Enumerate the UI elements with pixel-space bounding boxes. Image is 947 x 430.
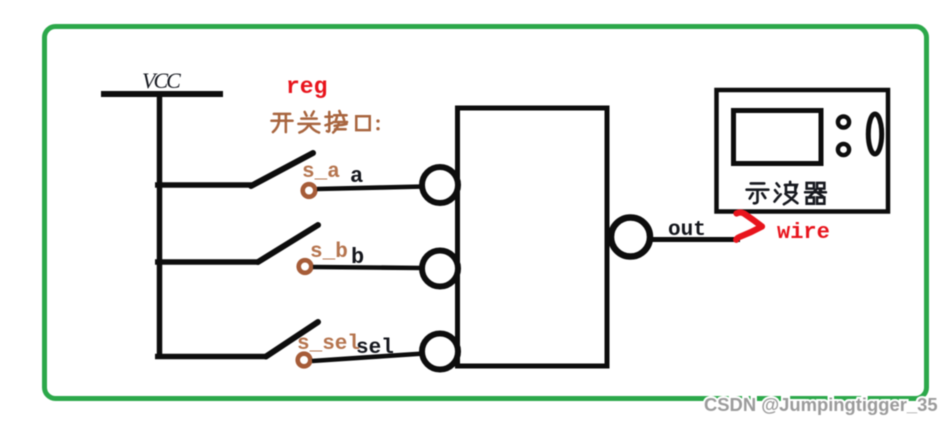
svg-text:a: a (350, 164, 363, 189)
svg-text:CSDN @Jumpingtigger_35: CSDN @Jumpingtigger_35 (704, 394, 938, 415)
波 (775, 182, 798, 204)
oscilloscope body (717, 90, 889, 212)
oscilloscope screen (734, 111, 822, 164)
switch s_sel throw contact (298, 354, 311, 367)
node sel input bubble (422, 334, 458, 370)
wire VCC bus vertical (157, 94, 163, 359)
wire switch s_a pole (155, 182, 252, 188)
wire sel (312, 354, 424, 362)
svg-text:s_b: s_b (310, 241, 348, 264)
oscilloscope dial ellipse (868, 114, 881, 154)
wire switch s_sel pole (155, 354, 267, 360)
switch s_sel blade (266, 322, 318, 357)
switch s_b blade (258, 225, 318, 262)
svg-text:VCC: VCC (142, 68, 181, 93)
switch s_a throw contact (303, 184, 316, 197)
annotation arrow wire (red chevron) (736, 213, 762, 240)
switch s_a blade (251, 153, 313, 186)
svg-text:s_sel: s_sel (297, 333, 360, 356)
svg-text:reg: reg (286, 74, 327, 100)
接 (325, 111, 347, 133)
svg-text:s_a: s_a (302, 161, 340, 184)
node b input bubble (422, 251, 458, 287)
示 (747, 183, 769, 203)
switch s_b throw contact (299, 260, 312, 273)
wire switch s_b pole (155, 259, 259, 265)
wire b (313, 267, 424, 268)
module U1 body (458, 108, 608, 366)
power rail VCC (101, 68, 223, 94)
node a input bubble (422, 167, 458, 203)
： (376, 119, 379, 130)
wire a (317, 187, 424, 190)
关 (298, 111, 319, 132)
label 示波器 (oscilloscope) (747, 182, 826, 204)
svg-text:wire: wire (777, 220, 830, 245)
wire out (650, 237, 740, 242)
svg-text:out: out (668, 219, 706, 242)
口 (356, 116, 369, 130)
oscilloscope knob 1 (838, 116, 849, 127)
oscilloscope knob 2 (838, 144, 849, 155)
器 (805, 183, 826, 204)
node out output bubble (611, 218, 650, 257)
label 开关接口： (switch interface) (271, 111, 379, 133)
开 (271, 114, 292, 132)
